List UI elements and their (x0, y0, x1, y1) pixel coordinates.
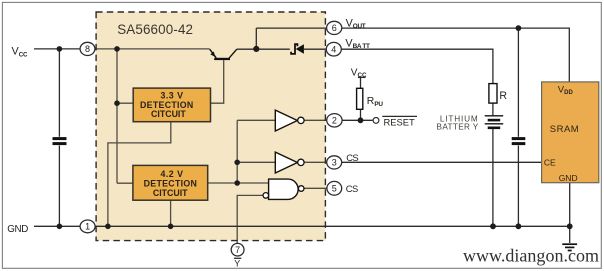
svg-text:BATTER Y: BATTER Y (437, 123, 479, 132)
svg-text:2: 2 (332, 116, 337, 126)
svg-text:4: 4 (331, 45, 336, 55)
svg-text:CS: CS (346, 183, 358, 194)
svg-text:SRAM: SRAM (550, 124, 579, 135)
svg-text:www.diangon.com: www.diangon.com (463, 246, 599, 266)
svg-text:CITCUIT: CITCUIT (151, 109, 186, 119)
svg-text:CITCUIT: CITCUIT (153, 188, 188, 198)
svg-text:R: R (499, 90, 507, 102)
svg-text:GND: GND (559, 173, 578, 183)
svg-text:5: 5 (332, 184, 337, 194)
svg-text:DETECTION: DETECTION (144, 178, 198, 188)
svg-text:GND: GND (7, 224, 28, 235)
svg-text:SA56600-42: SA56600-42 (117, 22, 193, 37)
svg-text:CS: CS (346, 152, 358, 163)
svg-text:Y: Y (234, 258, 240, 268)
svg-text:3: 3 (332, 158, 337, 168)
svg-text:8: 8 (85, 44, 90, 54)
svg-text:1: 1 (85, 222, 90, 232)
svg-text:CE: CE (544, 157, 556, 167)
svg-text:7: 7 (235, 245, 240, 255)
svg-text:RESET: RESET (384, 117, 416, 128)
svg-text:6: 6 (332, 23, 337, 33)
